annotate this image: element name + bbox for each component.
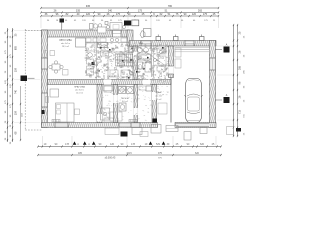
svg-text:90: 90: [145, 20, 148, 22]
svg-text:178: 178: [131, 143, 136, 146]
svg-text:SPAV IZBA: SPAV IZBA: [74, 86, 85, 89]
svg-text:25: 25: [176, 143, 179, 146]
svg-text:90: 90: [5, 110, 7, 113]
svg-text:51: 51: [168, 13, 171, 16]
svg-text:96: 96: [239, 81, 242, 84]
svg-text:90: 90: [121, 143, 124, 146]
svg-text:35: 35: [15, 33, 18, 36]
svg-text:60: 60: [92, 20, 95, 22]
svg-text:175: 175: [203, 13, 208, 16]
svg-text:TECH M.: TECH M.: [121, 98, 130, 100]
svg-text:715: 715: [239, 109, 242, 114]
svg-text:±0,000 A5: ±0,000 A5: [105, 157, 116, 160]
svg-text:485: 485: [78, 152, 83, 155]
svg-text:3x: 3x: [161, 69, 164, 71]
svg-text:25: 25: [10, 35, 12, 38]
svg-text:780: 780: [168, 5, 173, 8]
svg-text:PR: PR: [89, 65, 92, 67]
svg-text:26: 26: [5, 70, 7, 73]
svg-text:120: 120: [86, 13, 91, 16]
svg-text:26: 26: [244, 54, 246, 57]
svg-text:175: 175: [10, 103, 12, 107]
svg-text:25: 25: [244, 132, 246, 135]
svg-text:25: 25: [213, 20, 216, 22]
svg-text:175: 175: [204, 20, 208, 22]
svg-text:175: 175: [5, 99, 7, 103]
svg-text:90: 90: [10, 44, 12, 47]
svg-text:26: 26: [10, 124, 12, 127]
svg-text:TZ: TZ: [159, 50, 162, 52]
svg-text:945: 945: [86, 5, 91, 8]
svg-text:740: 740: [15, 89, 18, 94]
svg-text:90: 90: [10, 64, 12, 67]
svg-text:45: 45: [74, 20, 77, 22]
svg-text:A: A: [77, 143, 79, 146]
svg-text:2%: 2%: [97, 57, 100, 59]
svg-text:62: 62: [160, 13, 163, 16]
svg-text:25: 25: [239, 31, 242, 34]
svg-text:60: 60: [193, 20, 196, 22]
svg-text:120: 120: [156, 20, 160, 22]
svg-text:96: 96: [244, 85, 246, 88]
svg-text:26: 26: [107, 13, 110, 16]
svg-text:A: A: [226, 94, 228, 97]
svg-text:90: 90: [55, 143, 58, 146]
svg-text:25: 25: [213, 13, 216, 16]
svg-text:36: 36: [10, 141, 12, 144]
svg-text:120: 120: [192, 13, 197, 16]
svg-text:159: 159: [15, 67, 18, 72]
svg-text:90: 90: [184, 13, 187, 16]
svg-text:3,2 m2: 3,2 m2: [156, 99, 162, 101]
svg-text:715: 715: [244, 113, 246, 117]
svg-text:28,5 m2: 28,5 m2: [62, 46, 70, 48]
svg-text:120: 120: [110, 143, 115, 146]
svg-text:529: 529: [156, 143, 161, 146]
svg-text:55: 55: [110, 20, 113, 22]
svg-text:14,5 m2: 14,5 m2: [76, 93, 83, 95]
svg-text:OBYV. IZBA: OBYV. IZBA: [59, 39, 72, 42]
svg-text:25: 25: [5, 31, 7, 34]
svg-text:285: 285: [239, 65, 242, 70]
svg-text:90: 90: [128, 13, 131, 16]
svg-text:18: 18: [56, 20, 59, 22]
svg-text:90: 90: [98, 13, 101, 16]
svg-text:82: 82: [66, 13, 69, 16]
svg-text:975: 975: [158, 152, 163, 155]
svg-text:36: 36: [5, 137, 7, 140]
svg-text:175: 175: [5, 49, 7, 53]
svg-text:90: 90: [99, 143, 102, 146]
svg-text:abc 8x2 m: abc 8x2 m: [75, 90, 84, 92]
svg-text:WC: WC: [145, 62, 149, 64]
svg-text:75: 75: [176, 13, 179, 16]
svg-text:26: 26: [5, 120, 7, 123]
svg-text:178: 178: [65, 143, 70, 146]
svg-text:9: 9: [153, 13, 155, 16]
svg-text:90: 90: [5, 40, 7, 43]
svg-text:90: 90: [10, 114, 12, 117]
svg-text:90: 90: [65, 20, 68, 22]
svg-text:120: 120: [10, 83, 12, 87]
svg-text:620: 620: [200, 143, 205, 146]
svg-text:25: 25: [142, 13, 145, 16]
svg-text:36: 36: [45, 13, 48, 16]
svg-text:abc 4x2 m: abc 4x2 m: [61, 43, 71, 45]
svg-text:9,2: 9,2: [121, 46, 125, 48]
svg-text:36: 36: [47, 20, 50, 22]
svg-text:96: 96: [56, 13, 59, 16]
svg-text:8,6 m2: 8,6 m2: [122, 101, 128, 103]
svg-text:175: 175: [10, 53, 12, 57]
svg-text:419: 419: [22, 112, 24, 116]
svg-text:SPAJZ: SPAJZ: [155, 91, 162, 94]
svg-text:175: 175: [118, 20, 122, 22]
svg-text:25: 25: [212, 143, 215, 146]
svg-text:96: 96: [5, 130, 7, 133]
svg-text:A: A: [88, 143, 90, 146]
svg-text:90: 90: [181, 20, 184, 22]
svg-text:KUP: KUP: [139, 43, 144, 45]
svg-text:96: 96: [10, 134, 12, 137]
svg-text:975: 975: [158, 158, 162, 160]
svg-text:19: 19: [145, 143, 148, 146]
svg-text:68: 68: [15, 131, 18, 134]
svg-text:685: 685: [15, 45, 18, 50]
svg-text:90: 90: [5, 60, 7, 63]
svg-text:120: 120: [5, 79, 7, 83]
svg-text:175: 175: [116, 13, 121, 16]
svg-text:90: 90: [10, 94, 12, 97]
svg-text:1015: 1015: [126, 152, 132, 155]
svg-text:620: 620: [195, 152, 200, 155]
svg-text:90: 90: [187, 143, 190, 146]
svg-text:26: 26: [239, 95, 242, 98]
svg-text:CH 12,5: CH 12,5: [107, 76, 115, 78]
svg-text:abc 2x1: abc 2x1: [155, 96, 162, 98]
svg-text:90: 90: [5, 90, 7, 93]
svg-text:39: 39: [167, 143, 170, 146]
svg-text:26: 26: [10, 74, 12, 77]
svg-text:4,1: 4,1: [123, 72, 127, 74]
svg-text:40: 40: [77, 13, 80, 16]
svg-text:285: 285: [244, 69, 246, 73]
svg-text:120: 120: [82, 20, 86, 22]
svg-text:159: 159: [15, 110, 18, 115]
svg-text:1,8: 1,8: [90, 47, 94, 49]
svg-text:26: 26: [244, 99, 246, 102]
svg-text:45: 45: [169, 20, 172, 22]
svg-text:19: 19: [44, 143, 47, 146]
svg-text:25: 25: [244, 35, 246, 38]
svg-text:90: 90: [101, 20, 104, 22]
svg-text:26: 26: [239, 50, 242, 53]
